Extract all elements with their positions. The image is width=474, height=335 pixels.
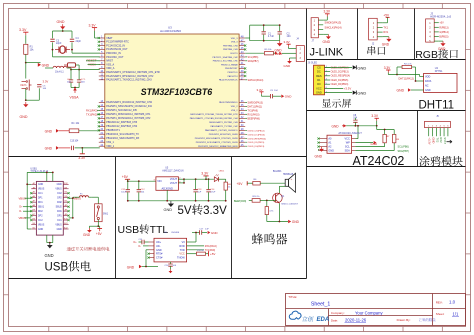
net label RX1(PA10) [245,113,259,116]
svg-text:2020-11-26: 2020-11-26 [345,318,367,323]
usb right stubs [63,183,69,230]
svg-text:VBUS: VBUS [55,189,62,191]
svg-text:PB6/I2C1_SCL/TIM4_CH1: PB6/I2C1_SCL/TIM4_CH1 [213,61,239,63]
section title display [322,99,331,108]
svg-text:AT24C02: AT24C02 [353,154,405,168]
wire at24 vcc bus [346,125,377,139]
wire pullups to 3.3V [377,126,395,135]
svg-text:SWCLK(PA14): SWCLK(PA14) [325,25,342,29]
wire emitter [267,203,288,222]
svg-text:GND: GND [332,124,340,128]
svg-text:GND: GND [20,115,28,119]
capacitor C15 (UD+) [139,239,149,244]
svg-text:PA0/USART2_CTS/ADC12_IN0/TIM2_: PA0/USART2_CTS/ADC12_IN0/TIM2_CH1_ETR [106,71,160,74]
svg-text:PB14/SPI2_MISO/USART3_RTS/TIM1: PB14/SPI2_MISO/USART3_RTS/TIM1_CH2N [195,137,238,140]
svg-text:3.3V: 3.3V [78,156,86,160]
wire gnd bus reg [127,190,227,201]
svg-text:GND: GND [156,249,162,252]
net label TX1 ttl [187,245,217,248]
svg-text:SWCLK(PA14): SWCLK(PA14) [248,79,264,82]
svg-text:CS: CS [317,65,321,69]
diode D1 (display top) [325,65,357,69]
section divider jlink/serial [357,9,359,60]
svg-text:PB8/TIM4_CH3: PB8/TIM4_CH3 [223,49,238,51]
svg-text:GND: GND [285,95,293,99]
svg-text:GND: GND [164,208,173,212]
svg-text:PB11/I2C2_SDA/USART3_RX: PB11/I2C2_SDA/USART3_RX [106,137,139,140]
svg-text:GND: GND [397,88,405,92]
wire crystal loop [53,29,73,38]
U3 left pin stubs and numbers [98,36,105,147]
usb left gnd bus [26,183,31,229]
wire [71,83,79,89]
svg-text:SWDIO(PA13): SWDIO(PA13) [325,21,342,25]
net label SWCLK [245,79,263,82]
svg-text:DHT11: DHT11 [435,70,443,73]
power flag 3.3V (rail) [201,172,209,180]
svg-text:SDA: SDA [345,149,350,152]
svg-text:GND: GND [323,40,331,44]
power flag 3.3V (jlink) [323,9,331,20]
svg-text:WP: WP [346,141,350,144]
at24 left stubs [317,138,327,151]
svg-text:SDA(PB7): SDA(PB7) [248,60,259,63]
section divider row1 bottom [307,59,466,61]
svg-text:5V: 5V [178,205,192,217]
svg-text:GND: GND [328,149,334,152]
svg-text:GND: GND [42,63,50,67]
svg-text:VSSA: VSSA [70,96,80,100]
ground (rgb) [438,41,446,51]
svg-text:RX1: RX1 [383,31,388,34]
svg-text:PA14/JTCK/SWCLK: PA14/JTCK/SWCLK [219,79,238,82]
svg-text:R5 10k: R5 10k [265,49,273,51]
capacitor C7 104 [77,70,86,84]
svg-text:1/1: 1/1 [453,312,459,317]
svg-text:SW1: SW1 [103,212,109,215]
section divider row2 bottom [307,110,466,112]
power flag 3.3V (C9) [257,88,271,96]
svg-text:OLED_D0(PB13): OLED_D0(PB13) [248,146,265,148]
capacitor C6 104 [67,70,73,84]
svg-text:PB4/JNTRST: PB4/JNTRST [225,68,238,70]
connector J5 tuya [425,115,451,128]
IC U3 STM32F103CBT6 MCU body [105,34,239,148]
svg-text:DP1: DP1 [57,216,62,218]
svg-text:TXD: TXD [180,249,185,252]
svg-text:SCL(PB6): SCL(PB6) [248,56,259,59]
svg-text:D1: D1 [317,78,321,82]
U3 right pin names group1 [213,38,239,82]
svg-text:PB15/SPI2_MOSI/TIM1_CH3N: PB15/SPI2_MOSI/TIM1_CH3N [209,134,238,136]
inductor L2 (vbus) [73,194,92,198]
svg-text:PB13/SPI2_SCK/USART3_CTS/TIM1_: PB13/SPI2_SCK/USART3_CTS/TIM1_CH1N [196,141,238,144]
power flag +5V (reg) [122,175,130,181]
svg-text:VCC: VCC [345,137,350,140]
ground (usb) [45,243,54,258]
svg-text:RTS#: RTS# [156,253,163,256]
ground (J4 pin3) [284,58,292,68]
svg-text:+5V: +5V [439,22,444,25]
svg-text:R16 1k: R16 1k [253,196,261,198]
wire [26,99,40,101]
capacitor C17 top [192,229,209,235]
connector display (yellow) [314,65,328,95]
title block Date [331,318,367,323]
svg-text:GND: GND [127,265,135,269]
note text [67,247,71,251]
svg-text:+5V: +5V [122,175,129,179]
section title serial [367,46,375,55]
svg-text:HDR-M2554_1x5: HDR-M2554_1x5 [430,15,451,19]
svg-text:VIN: VIN [157,179,161,183]
svg-text:PA10/USART1_RX/TIM1_CH3: PA10/USART1_RX/TIM1_CH3 [209,121,238,124]
connector J7 (J-LINK) [311,18,318,43]
resistor R7 [355,134,390,146]
title block Company [331,310,384,315]
ground flag (R4) [45,129,70,133]
net label SCL(PB6) [245,56,258,59]
capacitor C11 [121,181,130,201]
resistor R8 [355,134,399,150]
svg-text:BU22R1: BU22R1 [273,171,282,173]
svg-text:Your Company: Your Company [355,310,383,315]
svg-text:RX2: RX2 [439,137,443,143]
svg-text:+: + [291,178,293,182]
net label D- ttl [139,245,149,248]
push button KEY1 [21,80,32,91]
tuya pin stubs [429,128,448,137]
buzzer BUZZER1 [273,171,296,192]
title block Drawn By [397,318,436,322]
svg-text:SWDIO(PA13): SWDIO(PA13) [248,101,264,104]
svg-text:3.3V: 3.3V [324,9,331,13]
svg-text:VDD_2: VDD_2 [231,106,239,108]
ttl left stubs [147,242,154,259]
svg-text:OLED_D1(PB15): OLED_D1(PB15) [248,142,265,144]
svg-text:DC: DC [317,70,321,74]
svg-text:PB10/I2C2_SCL/USART3_TX: PB10/I2C2_SCL/USART3_TX [106,133,139,136]
net label VBUS left top [19,196,32,200]
svg-text:RGB: RGB [415,49,438,61]
wire [25,35,27,44]
svg-text:GND: GND [45,129,53,133]
U3 right pin stubs and numbers [239,36,246,147]
ground flag (c17) [208,231,219,235]
svg-text:GND: GND [45,253,54,258]
resistor R6 reg [224,179,232,201]
svg-text:VCC: VCC [179,253,184,256]
svg-text:PC13/TAMPER-RTC: PC13/TAMPER-RTC [106,41,129,44]
capacitor C8 104 [353,115,358,126]
crystal Y1 [55,46,70,53]
wire reg out [178,178,214,184]
diode D2 (display bottom) [325,91,357,95]
ground (serial) [382,37,392,47]
section divider serial/rgb [414,9,416,60]
svg-text:PA2/USART2_TX/ADC12_IN2/TIM2_C: PA2/USART2_TX/ADC12_IN2/TIM2_CH3 [106,79,152,82]
net label VBUS left bottom [19,216,32,220]
svg-text:VDD_A: VDD_A [106,67,115,70]
wire serial pins [377,23,382,37]
svg-text:22uF: 22uF [210,192,216,194]
svg-text:1uF: 1uF [205,229,209,231]
ground (jlink) [323,34,331,44]
net label DHT11(PA11) [245,105,262,108]
connector J4 [292,37,305,61]
ferrite bead FB1 [64,63,76,67]
svg-text:CC2: CC2 [57,193,62,195]
wire [25,89,27,101]
svg-text:AMS1117_DAAD1N: AMS1117_DAAD1N [162,170,183,173]
svg-text:STAT: STAT [443,137,447,144]
svg-text:GND: GND [57,229,62,231]
svg-text:J6 OLED: J6 OLED [308,63,318,65]
svg-text:1.0: 1.0 [449,300,456,305]
svg-text:DP1: DP1 [38,198,43,200]
net label D+ [19,206,31,209]
svg-text:22pF: 22pF [76,40,82,43]
svg-text:10uF: 10uF [121,192,127,194]
svg-text:PA6/SPI1_MISO/ADC12_IN6/TIM3_C: PA6/SPI1_MISO/ADC12_IN6/TIM3_CH1 [106,113,151,116]
wire [26,62,41,64]
svg-text:OLED_RES(PB14): OLED_RES(PB14) [331,76,351,78]
svg-text:10uH L1: 10uH L1 [55,71,64,73]
svg-text:TITLE:: TITLE: [288,295,297,299]
svg-text:G(PB14): G(PB14) [439,31,449,34]
wire to PD0/PD1 [53,53,100,57]
ground flag ttl [127,265,142,270]
net flag VSSA [70,88,80,100]
svg-text:VDD_1: VDD_1 [106,145,115,148]
component U2 DHT11 [424,67,457,92]
svg-text:3.3V: 3.3V [284,40,290,44]
capacitor C12 [137,181,146,201]
section divider main vertical [306,9,308,279]
title block frame [286,294,466,326]
regulator U5 AMS1117-3.3 [154,167,184,191]
power flag +5V (serial) [383,13,390,23]
svg-text:USB: USB [118,224,140,236]
svg-text:VSS_A: VSS_A [106,63,114,66]
svg-text:PB1/ADC12_IN9/TIM3_CH4: PB1/ADC12_IN9/TIM3_CH4 [106,125,137,128]
svg-text:PA7/SPI1_MOSI/ADC12_IN7/TIM3_C: PA7/SPI1_MOSI/ADC12_IN7/TIM3_CH2 [106,117,151,120]
wire rgb pins [434,23,439,41]
capacitor C13 [193,179,202,201]
svg-text:104: 104 [287,35,292,38]
ground (ttl left) [142,250,158,268]
capacitor C9 104 [270,90,281,98]
svg-text:DN1: DN1 [57,211,62,213]
resistor R1 10k [24,44,35,54]
svg-text:3.3V: 3.3V [89,24,97,28]
capacitor C14 [206,179,216,201]
svg-text:VSS_1: VSS_1 [106,141,114,144]
section divider row3 bottom [307,166,466,168]
ground flag (c8) [332,124,347,128]
section divider bottom row bottom [9,278,307,280]
svg-text:PC15/OSC32_OUT: PC15/OSC32_OUT [106,48,128,51]
chip U5 AT24C02 [327,131,362,153]
svg-text:LED1: LED1 [219,171,225,173]
svg-text:GND: GND [357,91,366,96]
svg-text:CC1: CC1 [57,220,62,222]
svg-text:Company:: Company: [331,311,345,315]
U3 left pin names group2 [106,101,152,148]
svg-text:OLED_DC(PB13): OLED_DC(PB13) [248,134,265,136]
section title tuya [419,156,429,166]
usb right vbus bus [69,197,74,219]
svg-text:VOUT: VOUT [170,177,178,181]
svg-text:UD-: UD- [156,245,161,248]
power flag +5V (sw1) [96,226,103,236]
capacitor C3 22pF [50,39,62,45]
label J3 HDR-M2554 [430,11,451,18]
resistor R16 base [249,196,276,202]
ground (at24 gnd pin) [315,147,324,159]
svg-text:PC14/OSC32_IN: PC14/OSC32_IN [106,44,125,47]
svg-text:DATA: DATA [425,80,432,83]
power flag 3.3V (VBAT) [89,24,100,39]
svg-text:TX1(PA2): TX1(PA2) [86,112,97,116]
net label SWDIO [245,101,263,104]
usb shield loop top [27,172,53,185]
net label RX1 [86,108,100,112]
title block REV [436,300,456,305]
svg-text:PA4/SPI1_NSS/USART2_CK/ADC12_I: PA4/SPI1_NSS/USART2_CK/ADC12_IN4 [106,105,152,108]
svg-text:PA15/JTDI: PA15/JTDI [228,75,238,78]
svg-text:TNOW: TNOW [177,257,185,260]
svg-text:R2 4.7k: R2 4.7k [404,64,412,66]
power net +3.3V display [325,87,352,91]
svg-text:PA13/JTMS/SWDIO: PA13/JTMS/SWDIO [219,101,238,104]
tuya arrow [447,140,453,143]
svg-text:22pF: 22pF [56,42,62,45]
power flag +5V ttl [209,251,216,256]
svg-text:VOUT: VOUT [170,181,178,185]
power flag 3.3V (VDD_1) [78,148,86,160]
svg-text:USB1: USB1 [30,167,37,170]
svg-text:VSS_3: VSS_3 [231,42,238,44]
ground flag (crystal top) [57,20,66,29]
resistor R6 buzzer [253,179,285,185]
ground (key) [20,102,29,119]
svg-text:DHT11(PA11): DHT11(PA11) [248,105,263,108]
wire dht [388,74,423,77]
svg-text:R(PB13): R(PB13) [439,26,448,29]
svg-text:PA12/USART1_RTS/CAN_TX/USB_DP/: PA12/USART1_RTS/CAN_TX/USB_DP/TIM1_ETR [190,113,238,116]
svg-text:PB7/I2C1_SDA/TIM4_CH2: PB7/I2C1_SDA/TIM4_CH2 [213,56,239,59]
svg-text:R13 0R: R13 0R [197,250,204,252]
svg-text:3.3V: 3.3V [19,28,27,32]
ground (dht) [397,88,424,92]
net labels OLED group [245,130,266,148]
svg-text:Date:: Date: [331,318,338,322]
svg-text:VBUS: VBUS [38,189,45,191]
svg-text:+5V: +5V [210,252,215,256]
resistor R17 pulldown [265,200,274,221]
svg-text:3.3V: 3.3V [384,66,391,70]
svg-text:TX2: TX2 [435,137,439,142]
section title buzzer [252,233,263,244]
capacitor C1 4.7uF [262,25,275,41]
svg-text:PA11/USART1_CTS/CAN_RX/USB_DM/: PA11/USART1_CTS/CAN_RX/USB_DM/TIM1_CH4 [190,117,239,120]
svg-text:PB9/TIM4_CH4: PB9/TIM4_CH4 [223,45,238,47]
svg-text:PD0/OSC_IN: PD0/OSC_IN [106,52,121,55]
svg-text:PD1/OSC_OUT: PD1/OSC_OUT [106,56,124,59]
svg-text:RXD: RXD [179,245,184,248]
section divider usb/ttl [115,157,117,279]
svg-text:STM32F103CBT6: STM32F103CBT6 [141,87,212,97]
connector USB1 type-c [30,167,63,235]
svg-text:RX1(PA10): RX1(PA10) [205,245,217,248]
svg-text:GND: GND [276,52,282,56]
svg-text:D-: D- [19,210,22,213]
title block Sheet [436,312,459,317]
wire [45,65,100,71]
svg-text:GND: GND [438,47,446,51]
ground flag (C9) [281,94,292,98]
svg-text:DHT11(PA12): DHT11(PA12) [399,78,414,81]
net label TX1(PA9) [245,109,258,112]
svg-text:VSS_2: VSS_2 [231,110,238,112]
power flag 3.3V (dht) [384,66,391,75]
section divider at24c02/tuya [417,111,419,167]
svg-text:3.3V: 3.3V [203,205,227,217]
wire jlink pins [318,20,323,34]
svg-text:NRST: NRST [106,60,113,63]
svg-text:D0: D0 [317,82,321,86]
svg-text:GND: GND [38,229,43,231]
svg-text:+5V: +5V [96,232,103,236]
svg-text:RX1(PA10): RX1(PA10) [248,113,260,116]
svg-text:3.3V: 3.3V [43,80,49,84]
svg-text:J-LINK: J-LINK [310,47,344,59]
svg-text:3.3V: 3.3V [257,88,263,92]
svg-text:ADJ/GND: ADJ/GND [162,187,174,191]
svg-text:UD+: UD+ [156,241,162,244]
svg-text:PA3/USART2_RX/ADC12_IN3/TIM2_C: PA3/USART2_RX/ADC12_IN3/TIM2_CH4 [106,101,152,104]
svg-text:Sheet_1: Sheet_1 [311,301,330,307]
tuya net labels vertical [428,137,447,144]
svg-text:PA5/SPI1_SCK/ADC12_IN5: PA5/SPI1_SCK/ADC12_IN5 [106,109,137,112]
svg-text:SDA(PB7): SDA(PB7) [398,150,410,153]
wire sw1 out [89,220,99,228]
ground flag (sw1) [83,226,92,237]
svg-text:GND: GND [57,184,62,186]
svg-text:KEY1: KEY1 [21,84,28,87]
svg-text:VCC: VCC [316,86,322,90]
svg-text:Drawn By:: Drawn By: [397,318,411,322]
capacitor C16 bottom [165,262,177,273]
svg-text:stm32F103cBt6: stm32F103cBt6 [160,29,181,33]
net labels rgb [439,22,449,39]
svg-text:OLED_RES(PB14): OLED_RES(PB14) [248,138,267,140]
ground net label GND (L1 input) [38,63,50,67]
svg-text:PB5/I2C1_SMBAI: PB5/I2C1_SMBAI [221,63,238,66]
wire [38,88,40,100]
svg-text:VDD_3: VDD_3 [231,38,239,40]
svg-text:PB3/JTDO: PB3/JTDO [228,72,238,74]
svg-text:PA1/USART2_RTS/ADC12_IN1/TIM2_: PA1/USART2_RTS/ADC12_IN1/TIM2_CH2 [106,75,154,78]
svg-text:SBU2: SBU2 [56,207,63,209]
svg-text:GND: GND [211,231,219,235]
connector J3 (RGB) [426,19,435,43]
inductor L1 10uH [53,66,67,73]
net label RX1 ttl [187,249,216,252]
svg-text:DN2: DN2 [57,202,62,204]
wire vdd group [245,24,280,41]
